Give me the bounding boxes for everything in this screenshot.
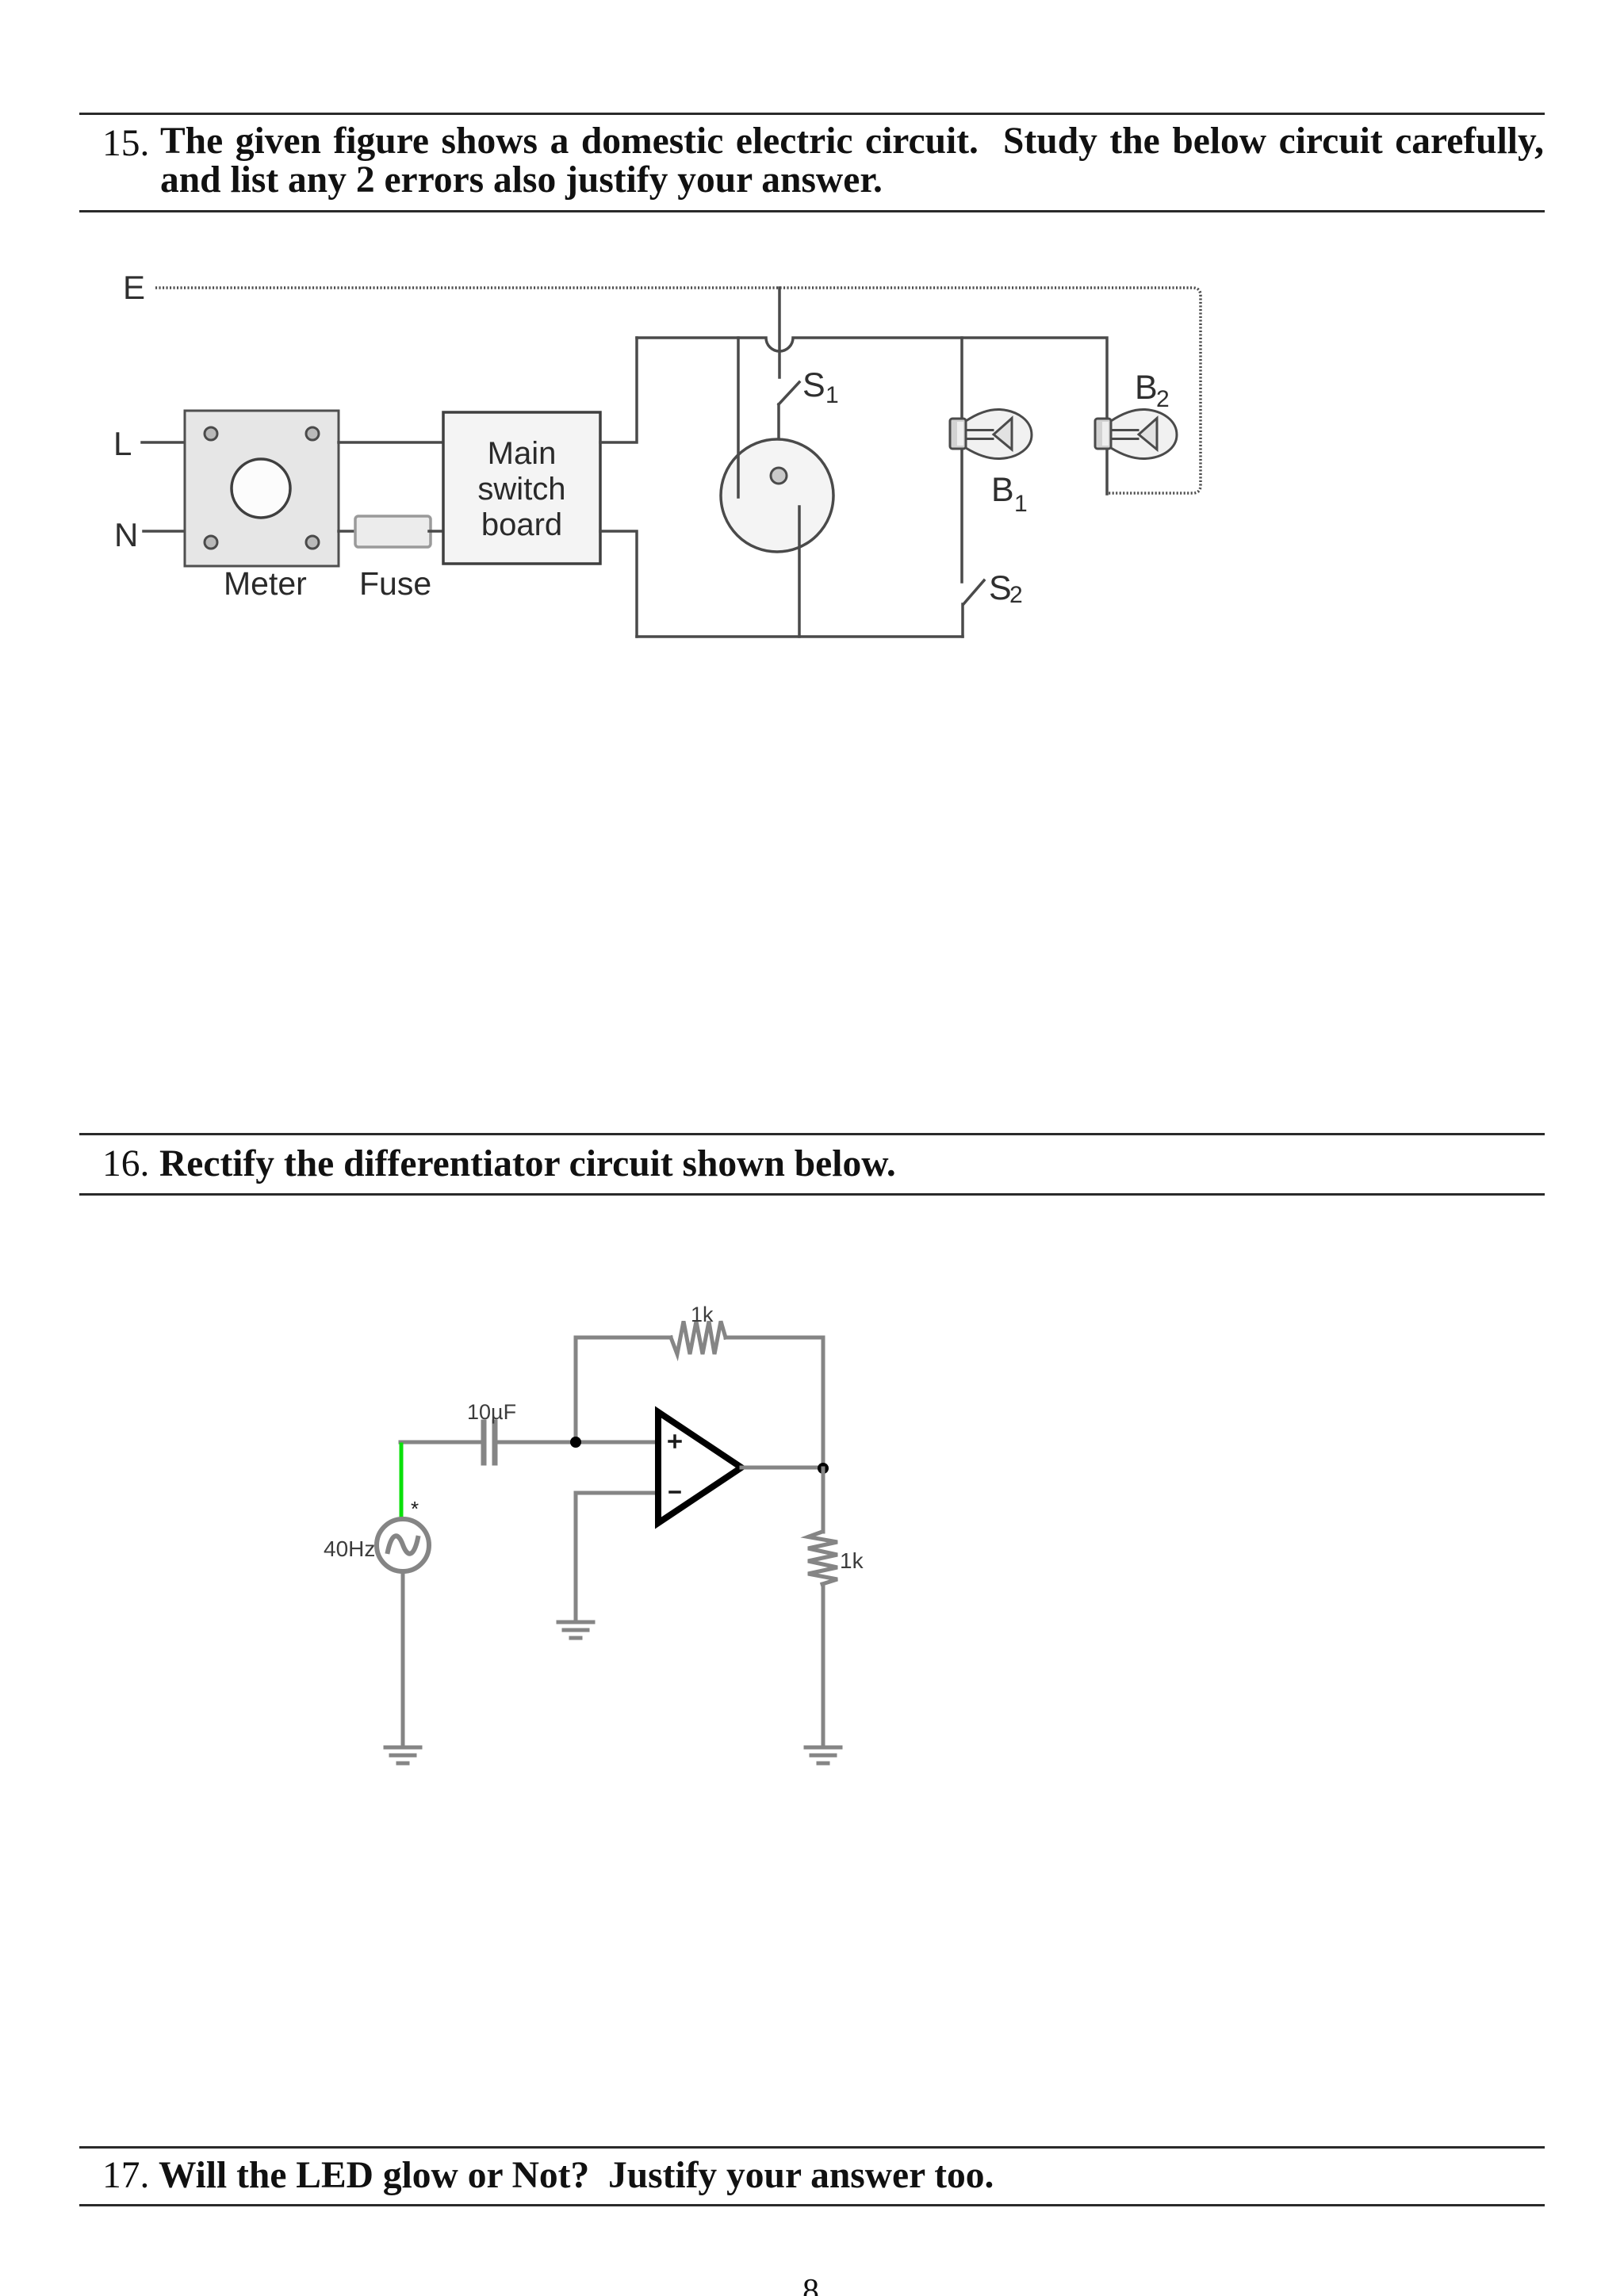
svg-text:board: board <box>481 507 562 542</box>
wire N to meter <box>144 530 185 533</box>
input wire from source <box>400 1441 481 1445</box>
op-amp U1 <box>658 1412 741 1523</box>
bottom bus wire <box>637 635 963 638</box>
question 17 text <box>159 2154 994 2197</box>
svg-text:L: L <box>113 425 132 462</box>
output node <box>818 1463 829 1474</box>
question 15 top rule <box>79 113 1545 115</box>
question 16 top rule <box>79 1133 1545 1135</box>
svg-text:1: 1 <box>1014 491 1028 517</box>
question 16 bottom rule <box>79 1193 1545 1196</box>
branch wire for bulb B1 and switch S2 <box>960 338 963 582</box>
load resistor R2 1k <box>808 1532 837 1584</box>
wire board to bottom bus <box>600 531 637 637</box>
svg-text:*: * <box>411 1497 419 1521</box>
question 16 number <box>102 1142 149 1185</box>
switch S2 bottom link <box>961 604 964 637</box>
feedback resistor R1 1k <box>671 1322 726 1355</box>
AC source V1 <box>377 1519 429 1571</box>
svg-text:N: N <box>114 516 138 553</box>
main switch board label <box>477 436 565 542</box>
question 17 number <box>102 2154 149 2197</box>
wire L to meter <box>142 441 185 444</box>
op-amp - pin label <box>670 1490 680 1494</box>
question 15 text <box>160 122 1544 200</box>
svg-text:2: 2 <box>1156 386 1170 412</box>
question 15 number <box>102 122 149 165</box>
svg-text:S: S <box>802 366 825 404</box>
feedback wire loop <box>576 1337 823 1468</box>
wire S1 to fan hub <box>777 404 780 468</box>
wire fuse to main switch board (N) <box>429 530 443 533</box>
svg-text:switch: switch <box>477 472 565 507</box>
svg-text:1: 1 <box>825 382 839 408</box>
question 17 bottom rule <box>79 2204 1545 2206</box>
wire E drop to switch S1 <box>778 288 781 377</box>
green probe wire <box>400 1445 404 1517</box>
svg-text:S: S <box>989 569 1012 607</box>
svg-text:Fuse: Fuse <box>359 565 431 602</box>
switch S2 blade <box>963 580 984 604</box>
top bus wire with hop <box>637 338 1107 494</box>
svg-text:1k: 1k <box>840 1548 864 1573</box>
earth wire E (dotted) <box>155 288 1201 493</box>
switch S1 blade <box>779 382 799 404</box>
wire op-amp - input to ground <box>576 1493 658 1619</box>
ground G3 (load) <box>806 1747 841 1763</box>
fan lower lead wire <box>798 507 801 637</box>
bulb B2 <box>1095 409 1177 458</box>
meter M1 <box>185 411 339 566</box>
page number 8 <box>802 2272 819 2296</box>
wire board to top bus <box>600 338 637 442</box>
svg-text:B: B <box>991 471 1014 509</box>
svg-text:B: B <box>1135 369 1158 407</box>
wire meter to fuse <box>339 530 356 533</box>
bulb B1 <box>950 409 1032 458</box>
op-amp output wire <box>741 1466 823 1470</box>
svg-text:40Hz: 40Hz <box>324 1536 375 1561</box>
question 15 bottom rule <box>79 210 1545 212</box>
main switch board U1 <box>443 412 600 564</box>
fan hub <box>771 468 787 484</box>
wire load resistor to ground <box>822 1584 825 1744</box>
question 17 top rule <box>79 2146 1545 2149</box>
ground G1 (source) <box>385 1747 420 1763</box>
op-amp + pin label <box>669 1436 680 1447</box>
node at + input <box>570 1437 581 1448</box>
ceiling fan M2 body <box>721 439 833 552</box>
capacitor C1 plates <box>484 1422 495 1463</box>
ground G2 (inverting input) <box>558 1622 593 1638</box>
svg-text:10µF: 10µF <box>467 1400 516 1424</box>
svg-text:Meter: Meter <box>224 565 307 602</box>
fan left lead wire <box>737 338 740 497</box>
wire source to ground <box>401 1571 405 1744</box>
question 16 text <box>159 1142 896 1185</box>
svg-text:1k: 1k <box>691 1303 714 1326</box>
svg-text:2: 2 <box>1009 582 1023 608</box>
svg-text:Main: Main <box>488 436 557 471</box>
fuse F1 <box>355 516 431 547</box>
wire meter to main switch board (L) <box>339 441 443 444</box>
wire output node to load resistor <box>822 1468 825 1532</box>
svg-text:E: E <box>123 269 145 306</box>
wire capacitor to op-amp + input <box>497 1441 658 1445</box>
